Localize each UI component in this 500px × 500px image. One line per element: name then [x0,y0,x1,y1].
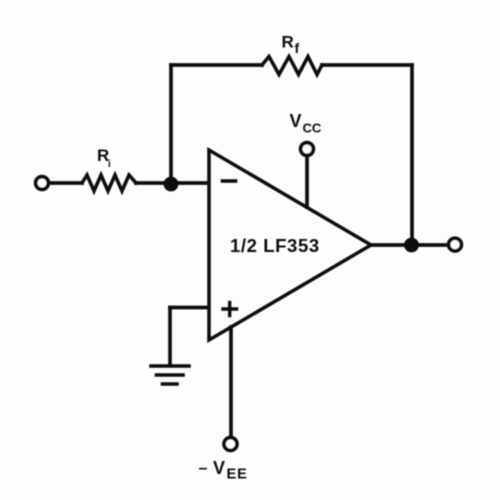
wire down to ground [168,308,172,365]
-Vee terminal [224,438,237,451]
wire input to Ri [49,181,82,185]
svg-text:CC: CC [303,121,322,136]
wire node A to inverting input [171,181,207,185]
svg-text:–: – [199,460,208,477]
node A (inverting input junction) [164,177,179,192]
wire right vertical down to output node [410,65,414,245]
Vcc terminal circle [301,143,314,156]
wire top right segment [322,63,412,67]
output node [404,238,419,253]
wire op-amp output to terminal [371,243,448,247]
ground [151,366,189,384]
output terminal [449,238,462,251]
input terminal [36,177,49,190]
wire top left segment [171,63,262,67]
svg-text:V: V [290,111,302,131]
svg-text:1/2 LF353: 1/2 LF353 [230,235,320,256]
svg-text:R: R [282,33,294,52]
op-amp minus input symbol [223,179,236,183]
resistor Rf [262,57,322,75]
svg-text:f: f [295,40,300,56]
wire Vcc to op-amp top edge [305,156,309,207]
wire non-inverting input horizontal [170,306,207,310]
label -Vee [199,458,248,483]
wire op-amp Vee pin down [229,327,233,437]
op-amp U1 triangle [209,150,371,340]
svg-text:EE: EE [227,467,248,483]
label Ri [97,146,111,170]
label Rf [282,33,300,57]
svg-text:V: V [213,458,225,478]
wire feedback left vertical [169,65,173,183]
wire Ri to node A [136,181,171,185]
op-amp plus input symbol [223,303,237,316]
resistor Ri [82,175,136,191]
svg-text:i: i [108,159,111,170]
label Vcc [290,111,322,136]
